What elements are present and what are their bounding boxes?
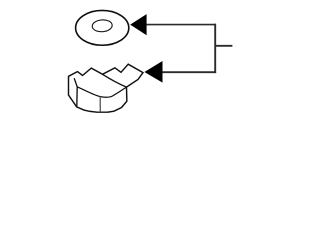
- leader vertical line: [214, 24, 216, 73]
- callout arrowhead 2 (points left at sensor): [144, 61, 162, 83]
- short stub line: [215, 45, 232, 47]
- internal facet line 2: [99, 97, 101, 113]
- crease line V2 to C2: [103, 74, 127, 87]
- knock sensor body outline: [69, 64, 144, 112]
- leader line 2 horizontal: [162, 71, 216, 73]
- grommet inner hole ellipse: [92, 19, 113, 32]
- equator line: [77, 87, 126, 98]
- grommet outer ellipse: [76, 10, 129, 45]
- callout arrowhead 1 (points left at grommet): [130, 14, 146, 35]
- leader line 1 horizontal: [146, 24, 216, 26]
- parts-diagram line art: grommet + knock sensor with callout arrows: [0, 0, 300, 124]
- internal facet line 1: [74, 78, 77, 107]
